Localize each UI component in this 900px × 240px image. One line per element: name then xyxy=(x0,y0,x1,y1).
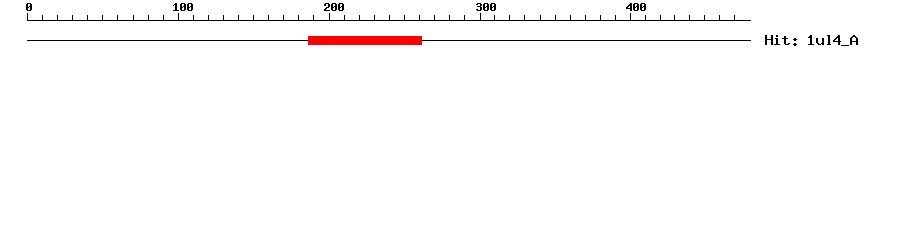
background xyxy=(0,0,900,60)
major tick 300 xyxy=(480,13,481,21)
major tick 0 xyxy=(27,13,28,21)
ruler axis line xyxy=(27,20,751,21)
ruler label 400 xyxy=(626,3,646,11)
alignment bar (red) xyxy=(308,36,422,45)
ruler label 300 xyxy=(476,3,496,11)
ruler label 0 xyxy=(26,3,32,11)
hit label text xyxy=(765,35,858,46)
major tick 100 xyxy=(178,13,179,21)
ruler label 100 xyxy=(173,3,193,11)
hit line xyxy=(27,40,751,41)
ruler label 200 xyxy=(324,3,344,11)
major tick 200 xyxy=(329,13,330,21)
minor ruler ticks xyxy=(42,15,735,21)
major tick 400 xyxy=(630,13,631,21)
